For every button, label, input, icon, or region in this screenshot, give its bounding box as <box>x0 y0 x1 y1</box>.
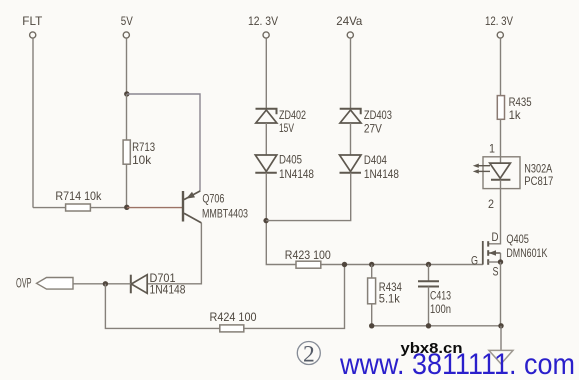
wire D404 down and left to zener node <box>266 173 351 221</box>
svg-text:1k: 1k <box>509 108 522 122</box>
node 24Va terminal <box>336 14 362 38</box>
svg-text:www. 3811111. com: www. 3811111. com <box>339 348 575 380</box>
junction C413 top <box>426 262 431 267</box>
wire Q405 source down <box>500 262 502 326</box>
junction bottom rail <box>498 323 503 328</box>
resistor R434 <box>368 278 376 304</box>
svg-text:R424 100: R424 100 <box>210 310 257 324</box>
R713 value 10k <box>132 153 152 167</box>
junction OVP node <box>103 281 108 286</box>
wire ZD403 to D404 <box>350 123 352 155</box>
svg-text:C413: C413 <box>430 289 451 303</box>
wire C413 bottom lead <box>428 287 430 326</box>
node 5V terminal <box>121 14 133 38</box>
svg-text:12. 3V: 12. 3V <box>485 14 513 28</box>
wire junction to Q706 emitter <box>127 94 200 191</box>
wire junction down to R713 <box>126 94 128 140</box>
zener ZD403 <box>340 109 361 123</box>
svg-text:12. 3V: 12. 3V <box>248 14 278 28</box>
ground <box>489 350 513 364</box>
svg-text:2: 2 <box>488 197 494 211</box>
svg-text:G: G <box>471 254 478 268</box>
Q405 pin G label <box>471 254 478 268</box>
junction R434 top <box>369 262 374 267</box>
wire R424 to gate row <box>244 265 345 329</box>
svg-text:5.1k: 5.1k <box>379 292 401 306</box>
R714 label and value <box>55 189 102 203</box>
svg-text:D405: D405 <box>279 153 302 167</box>
R424 label and value <box>210 310 257 324</box>
resistor R424 <box>220 325 244 332</box>
resistor R423 <box>296 261 321 268</box>
wire FLT vertical <box>32 38 34 207</box>
Q405 pin S label <box>493 264 499 278</box>
ZD402 label <box>279 108 306 122</box>
junction Q405 source body <box>498 259 503 264</box>
diode D701 <box>131 275 147 294</box>
wire to ground <box>500 326 502 351</box>
capacitor C413 <box>418 281 439 286</box>
N302A value PC817 <box>524 174 553 188</box>
D405 label <box>279 153 302 167</box>
ZD402 value 15V <box>279 121 294 135</box>
svg-text:R423 100: R423 100 <box>285 248 331 262</box>
svg-text:24Va: 24Va <box>336 14 362 28</box>
wire R713 bottom to base node <box>126 164 128 207</box>
svg-text:1: 1 <box>489 142 495 156</box>
resistor R713 <box>123 140 130 164</box>
node 12.3V terminal left <box>248 14 278 38</box>
resistor R435 <box>497 96 504 120</box>
Q706 label <box>202 192 224 206</box>
wire 12.3V to R435 <box>500 38 502 95</box>
svg-text:DMN601K: DMN601K <box>506 246 547 260</box>
junction C413 bottom <box>426 323 431 328</box>
svg-text:S: S <box>493 264 499 278</box>
D404 value 1N4148 <box>364 167 399 181</box>
C413 value 100n <box>430 302 451 316</box>
transistor Q405 MOSFET <box>483 241 501 265</box>
C413 label <box>430 289 451 303</box>
node FLT terminal <box>22 14 43 38</box>
svg-text:R435: R435 <box>509 95 532 109</box>
svg-text:15V: 15V <box>279 121 294 135</box>
svg-text:5V: 5V <box>121 14 133 28</box>
D404 label <box>364 153 387 167</box>
diode D404 <box>340 155 362 173</box>
svg-text:MMBT4403: MMBT4403 <box>202 207 248 221</box>
optocoupler emission arrows <box>473 164 490 174</box>
svg-text:100n: 100n <box>430 302 451 316</box>
R435 label <box>509 95 532 109</box>
Q405 label <box>506 232 529 246</box>
svg-text:PC817: PC817 <box>524 174 553 188</box>
wire 5V down to junction <box>126 38 128 94</box>
node 12.3V terminal right <box>485 14 513 38</box>
wire base node to Q706 base <box>127 207 182 209</box>
LED inside optocoupler <box>490 163 511 180</box>
wire R435 to optocoupler <box>500 119 502 163</box>
svg-text:FLT: FLT <box>22 14 43 28</box>
svg-text:D404: D404 <box>364 153 387 167</box>
junction R424 joins gate row <box>342 262 347 267</box>
wire Q706 collector down <box>147 223 201 284</box>
junction base node <box>124 205 129 210</box>
zener ZD402 <box>256 109 277 123</box>
svg-text:R713: R713 <box>132 140 155 154</box>
wire D405 down through junction to gate row <box>266 173 296 265</box>
svg-text:ZD402: ZD402 <box>279 108 306 122</box>
svg-text:1N4148: 1N4148 <box>279 167 314 181</box>
ZD403 label <box>364 108 392 122</box>
R435 value 1k <box>509 108 522 122</box>
svg-text:1N4148: 1N4148 <box>364 167 399 181</box>
svg-text:27V: 27V <box>364 122 382 136</box>
wire R714 to junction <box>90 207 126 209</box>
node page number 2 <box>297 342 320 368</box>
R434 value 5.1k <box>379 292 401 306</box>
wire 12.3V to ZD402 <box>265 38 267 109</box>
resistor R714 <box>33 204 90 211</box>
watermark ybx8.cn <box>401 340 463 357</box>
svg-text:Q405: Q405 <box>506 232 529 246</box>
Q706 value MMBT4403 <box>202 207 248 221</box>
wire gate row R423 to MOSFET gate <box>321 264 483 266</box>
R713 label <box>132 140 155 154</box>
Q405 pin D label <box>492 230 499 244</box>
junction zener node <box>263 218 268 223</box>
junction R434 bottom <box>369 323 374 328</box>
wire 24Va to ZD403 <box>350 38 352 109</box>
wire C413 top lead <box>428 265 430 282</box>
svg-text:2: 2 <box>303 342 315 368</box>
pin 2 label <box>488 197 494 211</box>
wire R434 bottom to bottom rail <box>372 304 502 326</box>
svg-text:D: D <box>492 230 499 244</box>
wire OVP node down and along bottom to R424 <box>105 284 219 329</box>
D701 label <box>150 271 176 285</box>
svg-text:10k: 10k <box>132 153 152 167</box>
watermark www.3811111.com <box>339 348 575 380</box>
R423 label and value <box>285 248 331 262</box>
diode D405 <box>255 155 276 173</box>
svg-text:1N4148: 1N4148 <box>150 283 186 297</box>
svg-text:Q706: Q706 <box>202 192 224 206</box>
pin 1 label <box>489 142 495 156</box>
wire D701 to OVP junction <box>105 283 130 285</box>
svg-text:R714 10k: R714 10k <box>55 189 102 203</box>
svg-text:ZD403: ZD403 <box>364 108 392 122</box>
node OVP connector <box>16 276 73 291</box>
Q405 value DMN601K <box>506 246 547 260</box>
D701 value 1N4148 <box>150 283 186 297</box>
N302A label <box>524 162 552 176</box>
ZD403 value 27V <box>364 122 382 136</box>
R434 label <box>379 280 402 294</box>
op-amp-style box optocoupler U N302A <box>483 157 520 189</box>
junction 5V split <box>124 91 129 96</box>
wire ZD402 to D405 <box>265 123 267 155</box>
wire R434 top lead <box>371 265 373 279</box>
transistor Q706 <box>183 191 201 223</box>
wire optocoupler to Q405 drain <box>488 180 500 244</box>
D405 value 1N4148 <box>279 167 314 181</box>
wire OVP to junction <box>74 283 106 285</box>
svg-text:OVP: OVP <box>16 276 32 291</box>
